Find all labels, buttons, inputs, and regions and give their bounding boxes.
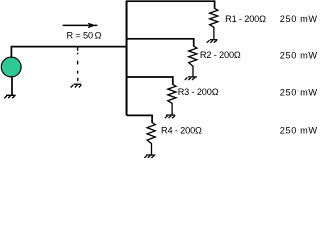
wire source top stub [10,47,12,57]
svg-text:R = 50 Ω: R = 50 Ω [67,31,102,41]
source V1 (green circle) [1,57,21,77]
resistor R2 [189,46,197,76]
wire branch to R1 [126,1,215,9]
resistor R4 [147,123,155,155]
wire main horizontal source to bus [11,46,128,48]
svg-text:R4 - 200Ω: R4 - 200Ω [161,126,202,136]
wire branch to R3 [127,77,173,85]
svg-text:R3 - 200Ω: R3 - 200Ω [178,87,219,97]
svg-text:R2 - 200Ω: R2 - 200Ω [200,50,241,60]
resistor R3 [168,84,176,114]
svg-text:R1 - 200Ω: R1 - 200Ω [225,14,266,24]
svg-text:250 mW: 250 mW [280,88,318,98]
dashed node line [77,47,79,81]
wire branch to R2 [127,39,194,47]
current arrow [63,24,98,26]
svg-text:250 mW: 250 mW [280,50,318,60]
ground (mini, below dashed line) [71,84,82,87]
wire source bottom stub [11,77,13,96]
resistor R1 [210,8,218,39]
wire branch to R4 [127,115,153,123]
ground (R1) [207,40,218,43]
svg-text:250 mW: 250 mW [280,126,318,136]
ground (R2) [185,77,197,80]
svg-text:250 mW: 250 mW [280,14,318,24]
ground (R4) [144,155,155,158]
bus vertical wire [126,1,128,115]
ground (source) [4,95,15,98]
ground (R3) [165,115,175,118]
